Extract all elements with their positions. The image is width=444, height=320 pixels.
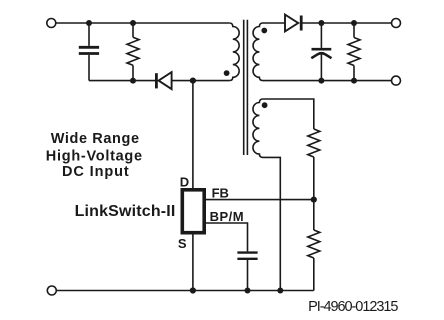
op-amp U1 LinkSwitch-II [182,190,204,233]
wire bias top lead [263,99,314,129]
wire primary bottom lead [193,80,229,82]
primary polarity dot [224,70,230,76]
wire source [192,235,194,291]
svg-text:High-Voltage: High-Voltage [46,148,143,164]
input terminal - [47,286,56,295]
wire top input rail [56,22,230,24]
output terminal + [392,19,401,28]
wire output bottom rail [263,80,392,82]
diode D2 [285,15,301,32]
transformer core [244,20,248,155]
secondary polarity dot [261,28,267,34]
svg-text:Wide Range: Wide Range [51,131,140,147]
wire drain [192,81,194,189]
resistor R4 [308,200,320,291]
node output cap tap [318,20,324,26]
svg-text:S: S [178,236,187,251]
wire FB [206,199,314,201]
node primary bus junction [190,78,196,84]
transformer T1 bias winding [253,99,263,157]
node BP cap junction [245,288,251,294]
node R1 bottom junction [130,78,136,84]
svg-text:BP/M: BP/M [210,209,245,224]
transformer T1 secondary winding [253,23,263,81]
transformer T1 primary winding [229,23,239,81]
node output resistor tap [351,20,357,26]
wire BP/M [206,223,248,251]
resistor R2 [348,23,360,81]
input terminal + [47,19,56,28]
output terminal - [392,76,401,85]
node FB junction [311,197,317,203]
bias polarity dot [262,102,268,108]
capacitor C3 [237,253,257,291]
wire output top rail [301,22,391,24]
label Wide Range High-Voltage DC Input [46,131,143,180]
node source junction [190,287,196,293]
resistor R3 [308,129,320,200]
svg-text:PI-4960-012315: PI-4960-012315 [308,299,398,315]
capacitor C2 [311,23,331,81]
wire bottom rail [56,290,314,292]
svg-text:LinkSwitch-II: LinkSwitch-II [75,203,176,220]
svg-text:DC Input: DC Input [62,164,130,180]
node input cap tap [86,20,92,26]
node output cap bottom [318,78,324,84]
resistor R1 [127,23,139,81]
svg-text:FB: FB [212,186,229,201]
wire bias return [263,157,280,290]
node input resistor tap [130,20,136,26]
wire secondary top lead [263,22,285,24]
node bias return junction [277,288,283,294]
wire lower input rail [89,80,155,82]
diode D1 [156,72,190,89]
svg-text:D: D [180,174,189,189]
node output resistor bottom [351,78,357,84]
capacitor C1 [79,23,99,81]
